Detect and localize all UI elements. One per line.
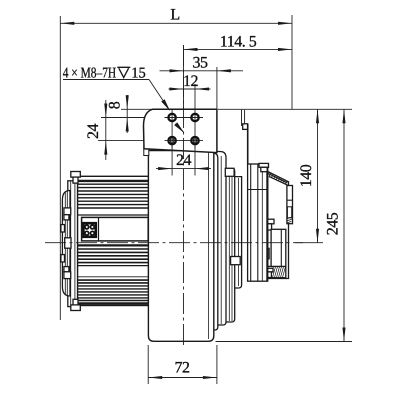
- dimension 24 (vertical, hole row spacing): [85, 100, 166, 160]
- svg-text:12: 12: [183, 73, 199, 90]
- dimension 8 (vertical): [107, 95, 169, 133]
- dimension 140 (vertical): [218, 109, 352, 242]
- leader label 4x M8-7H depth 15: [63, 66, 185, 134]
- dimension 24 (hole column spacing): [171, 144, 173, 176]
- svg-text:245: 245: [325, 212, 342, 235]
- 4x M8 tapped holes with centerlines: [165, 110, 204, 149]
- dimension 72 (bottom width): [148, 345, 217, 384]
- gearbox front section with input neck: [242, 110, 269, 281]
- svg-text:L: L: [170, 7, 179, 24]
- dimension 12: [169, 73, 211, 112]
- central gear housing block: [148, 151, 213, 342]
- svg-text:114. 5: 114. 5: [220, 34, 257, 51]
- motor body with cooling fins: [78, 176, 149, 305]
- bolt on gearbox ring: [225, 168, 234, 176]
- motor end cap and fan cover: [61, 172, 80, 311]
- mounting plate: [144, 147, 149, 156]
- svg-text:24: 24: [176, 152, 192, 169]
- gearbox intermediate section: [160, 177, 242, 288]
- dimension 114.5: [184, 34, 293, 111]
- terminal box: [82, 217, 149, 241]
- dimension L (overall length): [60, 7, 292, 321]
- centerlines: [183, 45, 185, 348]
- gearbox housing ring 3: [160, 169, 235, 323]
- gearbox flange ring A: [160, 153, 218, 330]
- svg-text:72: 72: [175, 360, 191, 377]
- gearbox output housing (right, slant top): [257, 172, 293, 279]
- svg-text:24: 24: [85, 124, 102, 140]
- gearbox flange ring B: [160, 152, 226, 326]
- svg-text:35: 35: [193, 55, 209, 72]
- svg-text:140: 140: [298, 164, 315, 187]
- svg-text:8: 8: [107, 101, 124, 109]
- dimension 35: [160, 55, 244, 110]
- dimension 245 (vertical): [216, 109, 353, 341]
